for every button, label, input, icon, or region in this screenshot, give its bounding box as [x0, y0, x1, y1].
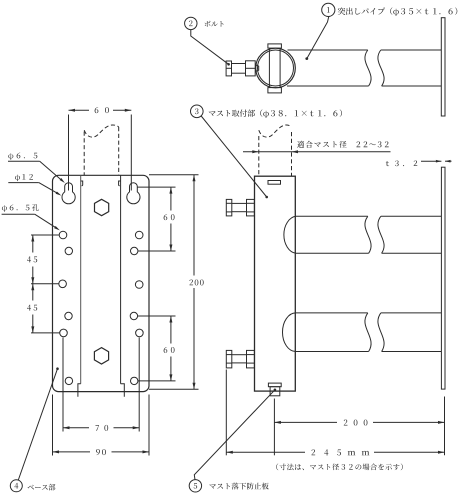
label 200 (side) — [344, 420, 368, 426]
label phi12 — [8, 174, 61, 196]
dim 200 right — [193, 175, 196, 389]
label 200 right — [189, 279, 203, 285]
bolt B1 nut — [247, 199, 255, 216]
leader 1 — [305, 16, 328, 60]
mast break curve (front) — [84, 125, 119, 137]
label 70 — [95, 425, 108, 431]
ext lines dim 60 top — [69, 115, 132, 191]
hex nut upper — [95, 199, 109, 215]
tube slot — [268, 181, 281, 185]
label 60 right upper — [164, 214, 175, 220]
pipe P1 bottom line — [296, 252, 442, 254]
mast mount tube — [255, 176, 296, 391]
hole left inner 1 — [65, 247, 72, 254]
balloon 3 — [191, 105, 204, 118]
label phi6.5 hole — [2, 204, 60, 230]
label: bolt — [205, 21, 224, 27]
bolt B2 head — [226, 350, 232, 368]
leader hole r2 — [138, 315, 176, 317]
balloon 2 — [185, 17, 197, 29]
hole left outer 1 — [59, 231, 67, 239]
label 60 right lower — [164, 347, 175, 353]
pipe P1 top line — [296, 215, 442, 217]
pipe silhouette right — [119, 175, 121, 383]
label: tsukidashi pipe — [338, 7, 458, 16]
hole left inner 2 — [65, 312, 72, 319]
hole right inner 1 — [131, 247, 138, 254]
leader hole r1 — [138, 250, 176, 252]
ext line 200 left — [273, 399, 275, 456]
hole left outer 3 — [60, 329, 68, 337]
mast dashed right edge — [291, 132, 293, 176]
dim line 45 pair — [31, 235, 34, 333]
label: mast mount part — [209, 109, 342, 118]
dim line mast fit 22-32 — [243, 150, 391, 153]
label: fit mast dia 22-32 — [297, 141, 389, 148]
pipe P2 bottom line — [296, 351, 442, 353]
tube end outer circle — [256, 48, 296, 88]
label 45 upper — [27, 256, 37, 262]
dim 70 — [63, 426, 139, 429]
hex nut lower — [94, 348, 108, 364]
leader keyhole right — [138, 186, 176, 188]
hole left inner 3 — [65, 377, 72, 384]
mast stopper plate — [268, 383, 281, 396]
dim 90 — [53, 450, 150, 453]
balloon 5 — [189, 480, 201, 492]
leader 4 — [18, 367, 59, 480]
pipe P2 top line — [296, 312, 442, 314]
hole right inner 2 — [130, 312, 137, 319]
leader hole row 2 — [31, 283, 59, 285]
dim 60 top — [69, 109, 132, 112]
label: base part — [28, 484, 56, 491]
label t3.2 — [386, 160, 417, 166]
ext lines dim 70 — [63, 338, 139, 432]
leader 2 — [191, 30, 230, 66]
ext line 245 left — [225, 370, 227, 456]
keyhole slot left — [62, 183, 75, 204]
leader hole r3 — [138, 380, 176, 382]
pipe P1 break lines — [365, 216, 384, 253]
leader hole row 3 — [31, 332, 60, 334]
ext line right (shared) — [444, 397, 446, 456]
leader 3 — [201, 116, 268, 198]
label phi6.5 — [8, 153, 65, 183]
hole right outer 1 — [135, 231, 143, 239]
ext lines dim 90 — [53, 395, 150, 456]
dim 60 right lower — [169, 316, 172, 381]
dim 200 (side) — [274, 421, 444, 424]
leader plate top right — [149, 174, 199, 176]
mast dashed left edge — [258, 136, 260, 176]
dim 60 right upper — [169, 187, 172, 251]
wall flange (side view) — [441, 167, 445, 389]
leader plate bottom right — [149, 388, 199, 390]
dim 245 — [226, 451, 444, 454]
hole left outer 2 — [59, 280, 67, 288]
base plate outline — [53, 175, 150, 391]
pipe break lines (top view) — [365, 50, 384, 86]
pipe lower line (top view) — [287, 85, 441, 87]
stopper strap top cap — [268, 44, 282, 48]
pipe P2 break lines — [365, 313, 384, 352]
bolt B1 head — [226, 199, 232, 216]
bolt washer seat — [255, 65, 259, 72]
leader hole row 1 — [31, 234, 59, 236]
pipe silhouette left — [81, 175, 83, 383]
mast break curve — [259, 125, 292, 137]
label 245mm — [312, 449, 370, 455]
balloon 1 — [322, 3, 335, 16]
keyhole slot right — [127, 183, 140, 204]
bolt shank (top view) — [232, 64, 246, 74]
hole right inner 3 — [131, 377, 138, 384]
balloon 4 — [10, 480, 22, 492]
bolt B2 nut — [247, 350, 255, 368]
pipe upper line (top view) — [288, 49, 442, 51]
label 45 lower — [27, 305, 37, 311]
mast dashed left edge (front) — [83, 132, 85, 176]
bolt B2 shank — [232, 355, 247, 363]
bolt B1 shank — [232, 203, 247, 211]
tube end inner circle — [258, 50, 294, 86]
dim t3.2 lines — [421, 160, 452, 163]
stopper tab left (front) — [78, 384, 81, 397]
mast dashed right edge (front) — [118, 127, 120, 175]
label 90 — [96, 449, 106, 455]
hole right outer 2 — [135, 281, 143, 289]
pipe P2 end arc — [282, 313, 295, 352]
leader 5 — [194, 389, 276, 480]
stopper strap bar — [269, 48, 280, 88]
bolt nut (top view) — [246, 61, 256, 76]
wall flange (top view) — [441, 18, 445, 116]
hole right outer 3 — [136, 329, 144, 337]
bolt head (top view) — [226, 61, 231, 76]
stopper tab right (front) — [121, 384, 125, 397]
note: dims for mast dia 32 — [276, 463, 403, 470]
label: mast stopper plate — [209, 483, 268, 490]
pipe P1 end arc — [284, 216, 296, 253]
stopper strap bottom cap — [268, 88, 282, 93]
label 60 top — [95, 107, 109, 113]
